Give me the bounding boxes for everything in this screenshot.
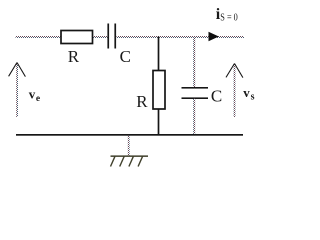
- svg-text:R: R: [68, 47, 80, 66]
- ground stub wire: [128, 136, 130, 156]
- wire C2 bottom stub: [193, 99, 195, 136]
- capacitor C2 plate top: [182, 87, 209, 89]
- ground hatch 1: [111, 156, 116, 166]
- svg-text:C: C: [120, 47, 131, 66]
- resistor R1 (series, horizontal): [61, 31, 93, 44]
- capacitor C1 (series coupling) plate left: [107, 24, 109, 49]
- resistor R2 (shunt, vertical): [153, 71, 165, 110]
- ve arrowhead right leg: [17, 63, 25, 77]
- vs arrowhead left leg: [226, 64, 235, 78]
- arrowhead current direction iS: [209, 32, 219, 41]
- vs arrowhead right leg: [235, 64, 243, 78]
- ground hatch 2: [120, 156, 125, 166]
- wire C to output end: [117, 36, 245, 38]
- svg-text:v: v: [29, 87, 36, 102]
- wire R to C coupling: [93, 36, 109, 38]
- wire R2 bottom to ground rail: [158, 109, 160, 135]
- svg-text:e: e: [36, 94, 40, 104]
- node A junction wire (top rail to R2): [158, 37, 160, 71]
- vs arrow shaft: [234, 64, 236, 117]
- svg-text:C: C: [211, 86, 222, 105]
- capacitor C1 plate right: [114, 24, 116, 49]
- ve arrowhead left leg: [9, 63, 17, 77]
- wire top rail left segment (input to R): [16, 36, 62, 38]
- svg-text:s: s: [251, 91, 255, 102]
- capacitor C2 plate bottom: [182, 97, 209, 99]
- wire C2 top stub: [193, 37, 195, 88]
- ground bar: [111, 155, 149, 157]
- svg-text:S = 0: S = 0: [220, 12, 238, 23]
- ground hatch 4: [138, 156, 143, 166]
- ground hatch 3: [129, 156, 134, 166]
- ve arrow shaft: [16, 63, 18, 117]
- svg-text:R: R: [136, 92, 148, 111]
- svg-text:v: v: [243, 85, 250, 100]
- wire bottom ground rail: [16, 134, 243, 136]
